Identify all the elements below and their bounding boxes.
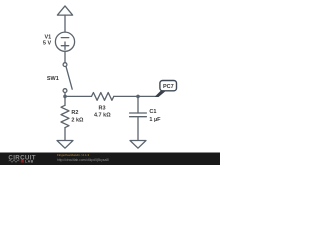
- svg-text:FingaYuanKelvin / 2.1.3: FingaYuanKelvin / 2.1.3: [57, 153, 89, 157]
- svg-text:V1: V1: [44, 35, 51, 41]
- svg-text:5 V: 5 V: [43, 41, 52, 47]
- svg-text:2 kΩ: 2 kΩ: [71, 117, 84, 123]
- svg-text:SW1: SW1: [47, 76, 59, 82]
- svg-text:LAB: LAB: [25, 160, 34, 164]
- svg-text:C1: C1: [149, 109, 156, 115]
- svg-text:R3: R3: [98, 106, 105, 112]
- svg-text:PC7: PC7: [163, 84, 174, 90]
- svg-text:http://circuitlab.com/c6kpd5j5: http://circuitlab.com/c6kpd5j5kysa8l: [57, 158, 109, 162]
- svg-text:1 µF: 1 µF: [149, 117, 161, 123]
- svg-text:R2: R2: [71, 110, 78, 116]
- svg-text:4.7 kΩ: 4.7 kΩ: [94, 112, 111, 118]
